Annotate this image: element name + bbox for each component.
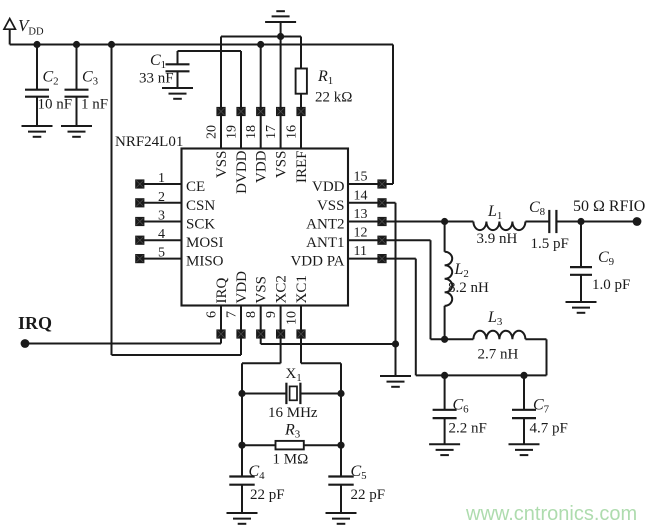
wire R3 left lead	[242, 444, 276, 446]
pin 16 pad	[296, 107, 305, 116]
svg-text:IRQ: IRQ	[214, 278, 230, 304]
svg-text:VSS: VSS	[254, 276, 270, 304]
wire C1 top lead	[177, 51, 179, 64]
ground C4	[227, 513, 258, 524]
svg-text:12: 12	[354, 226, 368, 241]
wire L1 to C8	[525, 221, 549, 223]
ground C3	[61, 126, 92, 137]
wire VDD PA down	[415, 259, 417, 376]
wire X1 left lead	[242, 393, 286, 395]
svg-text:2: 2	[158, 190, 165, 205]
resistor R1	[296, 69, 307, 94]
wire bottom RF rail	[416, 374, 547, 376]
svg-text:10 nF: 10 nF	[38, 97, 73, 113]
svg-text:1.0 pF: 1.0 pF	[592, 277, 630, 293]
pin 11 pad	[377, 254, 386, 263]
svg-text:22 pF: 22 pF	[250, 487, 285, 503]
capacitor C2	[25, 90, 49, 97]
wire C6 bottom lead	[444, 418, 446, 444]
wire C7 bottom lead	[523, 418, 525, 444]
wire right crystal column	[340, 363, 342, 476]
wire pin18 VDD	[260, 45, 262, 149]
wire VSS run right	[261, 343, 396, 345]
node junction X1 left	[238, 390, 245, 397]
svg-text:9: 9	[264, 311, 279, 318]
wire L1 left lead	[445, 221, 474, 223]
node junction ANT2/L1/L2	[441, 218, 448, 225]
capacitor C6	[433, 410, 457, 418]
wire C3 bottom lead	[76, 97, 78, 126]
node RFIO terminal	[633, 217, 642, 226]
svg-text:20: 20	[205, 125, 220, 139]
wire C8 to RFIO	[556, 221, 637, 223]
wire C6 top lead	[444, 375, 446, 409]
wire ANT1 down	[430, 240, 432, 339]
wire C9 top lead	[580, 222, 582, 268]
wire R3 right lead	[304, 444, 341, 446]
svg-text:NRF24L01: NRF24L01	[115, 134, 183, 150]
wire pin 1 lead	[140, 183, 182, 185]
capacitor C1	[166, 64, 190, 71]
pin 5 pad	[135, 254, 144, 263]
ground C5	[326, 513, 357, 524]
ground C1	[162, 88, 193, 99]
node junction VSS/gnd	[392, 340, 399, 347]
wire pin9 XC2 down	[280, 306, 282, 364]
svg-text:11: 11	[354, 244, 367, 259]
svg-text:1 nF: 1 nF	[81, 97, 108, 113]
wire C1 bottom lead	[177, 71, 179, 88]
wire C2 top lead	[36, 45, 38, 90]
svg-text:CE: CE	[186, 179, 205, 195]
wire pin12 ANT1 run	[348, 239, 431, 241]
wire pin13 ANT2 run	[348, 221, 445, 223]
pin 18 pad	[256, 107, 265, 116]
wire L3 down	[546, 339, 548, 375]
svg-text:17: 17	[264, 125, 279, 139]
wire pin15 VDD	[348, 183, 393, 185]
svg-text:19: 19	[225, 125, 240, 139]
pin 12 pad	[377, 236, 386, 245]
svg-text:4.7 pF: 4.7 pF	[530, 421, 568, 437]
pin 2 pad	[135, 198, 144, 207]
wire IRQ run	[25, 343, 221, 345]
svg-text:3: 3	[158, 209, 165, 224]
svg-text:www.cntronics.com: www.cntronics.com	[465, 503, 637, 525]
wire left crystal column	[241, 363, 243, 476]
wire pin17 VSS	[280, 37, 282, 149]
wire VDD bottom run	[112, 354, 242, 356]
svg-text:14: 14	[354, 188, 368, 203]
capacitor C4	[229, 477, 254, 485]
svg-text:8.2 nH: 8.2 nH	[448, 280, 489, 296]
pin 14 pad	[377, 198, 386, 207]
svg-text:18: 18	[244, 125, 259, 139]
wire pin20 VSS up to gnd bus	[220, 37, 222, 149]
svg-text:16: 16	[285, 125, 300, 139]
node junction X1 right	[337, 390, 344, 397]
svg-text:CSN: CSN	[186, 198, 215, 214]
svg-text:33 nF: 33 nF	[139, 71, 174, 87]
svg-text:8: 8	[244, 311, 259, 318]
node junction gnd/pin17	[277, 33, 284, 40]
svg-text:IRQ: IRQ	[18, 313, 52, 333]
resistor R3	[276, 441, 304, 450]
ground C9	[566, 302, 597, 313]
svg-text:10: 10	[285, 311, 300, 325]
node junction R3 right	[337, 442, 344, 449]
node junction rail/C3	[73, 41, 80, 48]
node junction rail/C2	[33, 41, 40, 48]
wire pin 2 lead	[140, 202, 182, 204]
pin 7 pad	[236, 329, 245, 338]
crystal X1	[286, 383, 300, 404]
pin 8 pad	[256, 329, 265, 338]
svg-text:VDD: VDD	[254, 150, 270, 183]
node junction C6	[441, 372, 448, 379]
wire top ground bus	[221, 36, 301, 38]
wire pin 5 lead	[140, 258, 182, 260]
wire pin14 VSS down	[395, 203, 397, 376]
wire C3 top lead	[76, 45, 78, 90]
svg-text:3.9 nH: 3.9 nH	[477, 231, 518, 247]
wire L2 top lead	[444, 222, 446, 252]
svg-text:1: 1	[158, 171, 165, 186]
svg-text:22 kΩ: 22 kΩ	[315, 90, 352, 106]
ground C2	[22, 126, 53, 137]
wire C7 top lead	[523, 375, 525, 409]
pin 3 pad	[135, 217, 144, 226]
svg-text:22 pF: 22 pF	[351, 487, 386, 503]
svg-text:IREF: IREF	[294, 151, 310, 184]
node junction rail/pin18	[257, 41, 264, 48]
svg-text:VSS: VSS	[317, 198, 345, 214]
svg-text:50 Ω RFIO: 50 Ω RFIO	[573, 198, 645, 215]
svg-text:ANT1: ANT1	[306, 235, 344, 251]
wire C9 bottom lead	[580, 275, 582, 302]
svg-text:2.7 nH: 2.7 nH	[478, 347, 519, 363]
svg-text:6: 6	[205, 311, 220, 318]
wire R1 top lead	[300, 37, 302, 69]
wire pin 3 lead	[140, 221, 182, 223]
pin 19 pad	[236, 107, 245, 116]
svg-text:16 MHz: 16 MHz	[268, 405, 318, 421]
node junction L2/L3	[441, 336, 448, 343]
svg-text:SCK: SCK	[186, 217, 215, 233]
svg-text:15: 15	[354, 170, 368, 185]
svg-text:XC2: XC2	[273, 275, 289, 303]
op-amp U1 NRF24L01 IC body	[182, 149, 349, 306]
node junction C9 tap	[577, 218, 584, 225]
svg-text:MISO: MISO	[186, 254, 224, 270]
wire L2 bottom lead	[444, 306, 446, 340]
svg-text:7: 7	[225, 311, 240, 318]
pin 4 pad	[135, 236, 144, 245]
capacitor C8	[549, 210, 556, 233]
wire C5 bottom lead	[340, 485, 342, 513]
svg-text:DVDD: DVDD	[234, 150, 250, 193]
wire DVDD to C1	[178, 50, 242, 52]
svg-text:1.5 pF: 1.5 pF	[531, 236, 569, 252]
svg-text:VSS: VSS	[214, 151, 230, 179]
svg-text:VDD: VDD	[312, 179, 345, 195]
pin 1 pad	[135, 179, 144, 188]
node junction rail/VDD drop	[108, 41, 115, 48]
ground pin14	[380, 376, 411, 387]
capacitor C5	[328, 477, 353, 485]
inductor L1	[473, 222, 525, 231]
svg-text:VSS: VSS	[273, 151, 289, 179]
wire VDD drop left side	[111, 45, 113, 356]
capacitor C3	[65, 90, 89, 97]
wire R1 to pin16 IREF	[300, 94, 302, 149]
pin 17 pad	[276, 107, 285, 116]
supply terminal VDD arrow	[4, 19, 15, 30]
wire rail down to pin15	[392, 45, 394, 185]
node IRQ terminal	[21, 339, 30, 348]
inductor L3	[473, 331, 525, 340]
node junction C7	[520, 372, 527, 379]
wire C2 bottom lead	[36, 97, 38, 126]
pin 20 pad	[216, 107, 225, 116]
svg-text:VDD PA: VDD PA	[290, 254, 344, 270]
pin 13 pad	[377, 217, 386, 226]
svg-text:2.2 nF: 2.2 nF	[449, 421, 487, 437]
wire pin8 VSS down	[260, 306, 262, 345]
svg-text:5: 5	[158, 246, 165, 261]
wire pin11 VDD PA run	[348, 258, 416, 260]
wire pin14 VSS	[348, 202, 396, 204]
wire pin7 VDD	[240, 306, 242, 356]
svg-text:MOSI: MOSI	[186, 235, 224, 251]
capacitor C7	[512, 410, 536, 418]
capacitor C9	[570, 267, 592, 275]
wire L3 right lead	[525, 338, 546, 340]
wire XC1 right run	[301, 362, 341, 364]
wire X1 right lead	[300, 393, 341, 395]
pin 9 pad	[276, 329, 285, 338]
ground C7	[509, 444, 540, 455]
ground C6	[429, 444, 460, 455]
pin 10 pad	[296, 329, 305, 338]
wire to L3	[431, 338, 474, 340]
pin 6 pad	[216, 329, 225, 338]
svg-text:ANT2: ANT2	[306, 217, 344, 233]
node junction R3 left	[238, 442, 245, 449]
svg-text:1 MΩ: 1 MΩ	[273, 452, 309, 468]
wire pin6 IRQ	[220, 306, 222, 344]
svg-text:XC1: XC1	[294, 275, 310, 303]
wire VDD rail	[10, 44, 393, 46]
inductor L2	[445, 252, 453, 306]
svg-text:13: 13	[354, 207, 368, 222]
pin 15 pad	[377, 179, 386, 188]
svg-text:4: 4	[158, 227, 165, 242]
wire ground stem	[280, 22, 282, 37]
ground top (inverted)	[265, 11, 296, 22]
wire VDD stem	[9, 29, 11, 44]
wire XC2 left run	[242, 362, 281, 364]
wire pin10 XC1 down	[300, 306, 302, 364]
svg-text:VDD: VDD	[234, 271, 250, 304]
wire pin 4 lead	[140, 239, 182, 241]
wire C4 bottom lead	[241, 485, 243, 513]
wire pin19 DVDD	[240, 51, 242, 149]
